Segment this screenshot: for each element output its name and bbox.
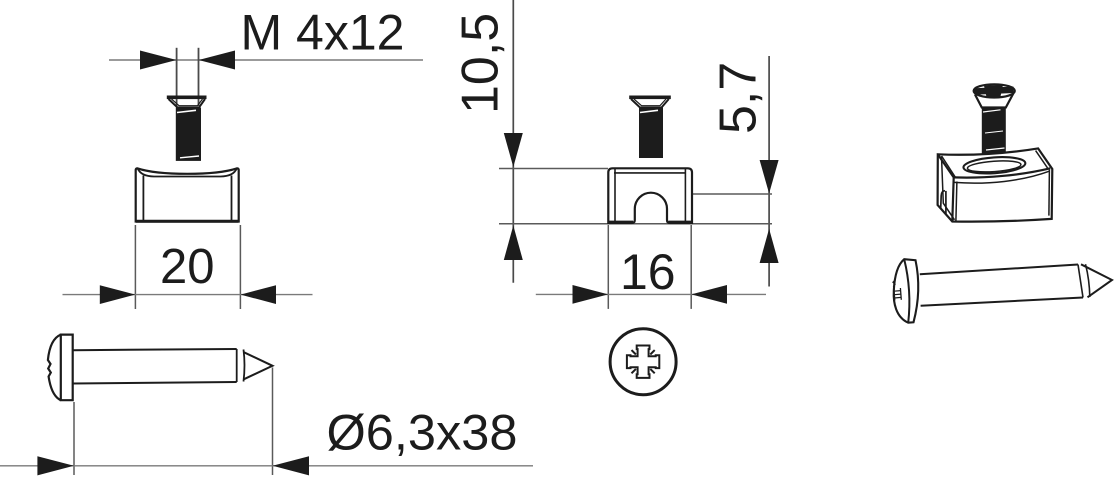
svg-text:Ø6,3x38: Ø6,3x38 — [327, 404, 518, 461]
svg-text:16: 16 — [620, 244, 676, 300]
svg-text:M 4x12: M 4x12 — [241, 5, 405, 61]
svg-text:10,5: 10,5 — [452, 13, 510, 114]
svg-text:5,7: 5,7 — [710, 62, 768, 134]
svg-text:20: 20 — [160, 240, 215, 294]
